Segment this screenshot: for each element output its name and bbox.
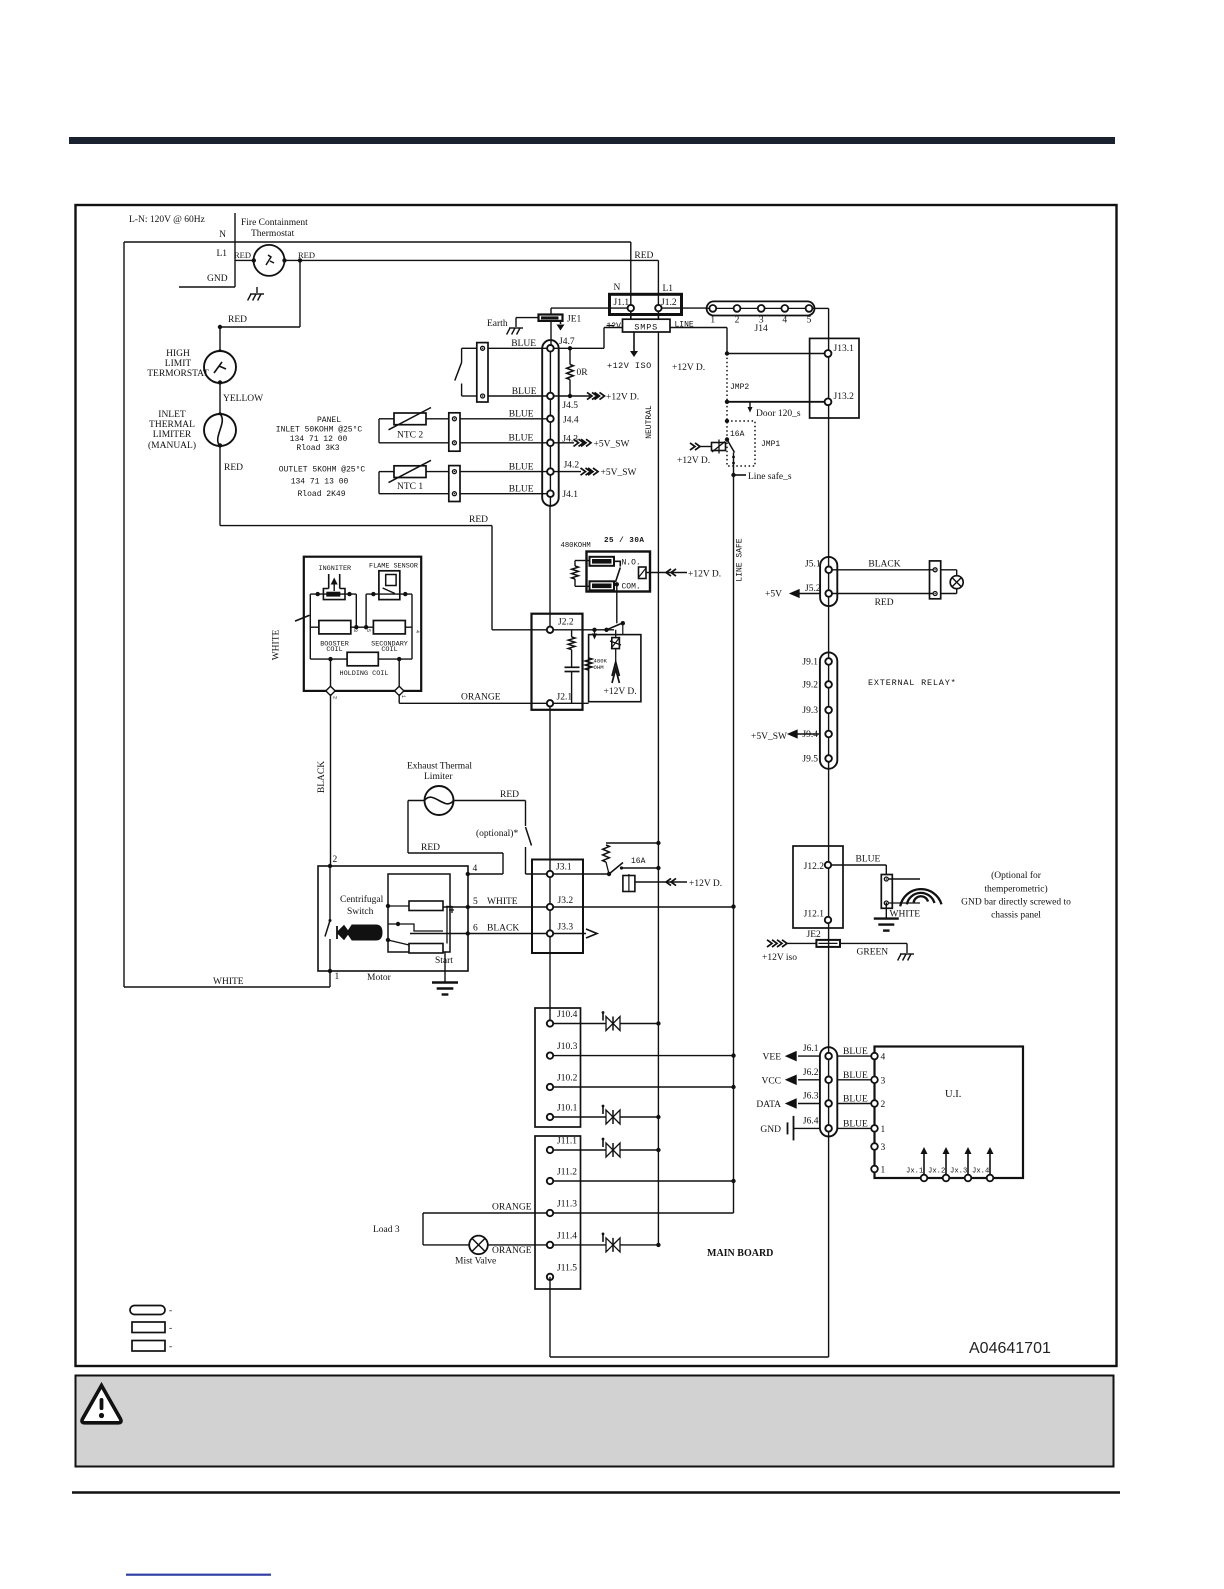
svg-text:L-N: 120V @ 60Hz: L-N: 120V @ 60Hz xyxy=(129,215,205,225)
svg-text:OHM: OHM xyxy=(594,664,604,671)
svg-text:RED: RED xyxy=(875,598,894,608)
svg-text:J9.5: J9.5 xyxy=(802,755,818,765)
svg-text:J6.1: J6.1 xyxy=(803,1044,819,1054)
svg-text:+5V_SW: +5V_SW xyxy=(751,732,787,742)
svg-text:BLUE: BLUE xyxy=(509,463,534,473)
svg-text:J9.4: J9.4 xyxy=(802,730,818,740)
svg-text:BLACK: BLACK xyxy=(487,924,519,934)
svg-text:J12.2: J12.2 xyxy=(804,862,825,872)
svg-text:Earth: Earth xyxy=(487,319,508,329)
svg-text:L1: L1 xyxy=(663,284,674,294)
svg-text:25 / 30A: 25 / 30A xyxy=(604,537,644,545)
svg-text:Load 3: Load 3 xyxy=(373,1225,400,1235)
svg-text:SMPS: SMPS xyxy=(634,322,658,332)
svg-text:FLAME SENSOR: FLAME SENSOR xyxy=(369,563,418,571)
svg-text:6: 6 xyxy=(473,924,478,934)
svg-text:JE1: JE1 xyxy=(567,315,582,325)
svg-text:VCC: VCC xyxy=(761,1076,781,1086)
svg-text:Motor: Motor xyxy=(367,973,392,983)
svg-text:J9.1: J9.1 xyxy=(802,658,818,668)
svg-text:-: - xyxy=(169,1342,172,1352)
svg-text:THERMAL: THERMAL xyxy=(149,420,195,430)
svg-text:1: 1 xyxy=(710,316,715,326)
svg-text:Limiter: Limiter xyxy=(424,772,453,782)
svg-text:DATA: DATA xyxy=(756,1100,781,1110)
svg-text:2: 2 xyxy=(881,1100,886,1110)
svg-text:VEE: VEE xyxy=(763,1053,782,1063)
svg-text:4: 4 xyxy=(414,630,420,633)
svg-text:BLUE: BLUE xyxy=(509,410,534,420)
svg-text:LIMIT: LIMIT xyxy=(165,359,192,369)
svg-text:Centrifugal: Centrifugal xyxy=(340,894,384,905)
svg-text:J4.7: J4.7 xyxy=(559,337,575,347)
svg-text:COM.: COM. xyxy=(622,583,641,592)
svg-text:J1.2: J1.2 xyxy=(661,298,677,308)
svg-text:TERMORSTAT: TERMORSTAT xyxy=(147,369,209,379)
svg-text:134 71 12 00: 134 71 12 00 xyxy=(290,435,348,444)
svg-text:N: N xyxy=(614,283,621,293)
svg-text:J4.4: J4.4 xyxy=(563,416,579,426)
svg-text:J11.1: J11.1 xyxy=(557,1137,577,1147)
svg-text:NTC 2: NTC 2 xyxy=(397,431,423,441)
svg-text:WHITE: WHITE xyxy=(272,630,282,661)
svg-text:RED: RED xyxy=(469,515,488,525)
svg-text:(optional)*: (optional)* xyxy=(476,828,518,839)
svg-text:BLACK: BLACK xyxy=(317,761,327,793)
svg-text:GND: GND xyxy=(760,1125,781,1135)
svg-text:J1.1: J1.1 xyxy=(614,298,630,308)
svg-text:GND bar directly screwed to: GND bar directly screwed to xyxy=(961,898,1071,908)
svg-text:J13.2: J13.2 xyxy=(834,392,855,402)
svg-text:WHITE: WHITE xyxy=(487,897,518,907)
svg-text:Exhaust Thermal: Exhaust Thermal xyxy=(407,762,472,772)
svg-text:GND: GND xyxy=(207,274,228,284)
svg-text:themperometric): themperometric) xyxy=(984,884,1047,895)
svg-text:4: 4 xyxy=(473,864,478,874)
svg-text:JE2: JE2 xyxy=(807,930,822,940)
svg-text:RED: RED xyxy=(421,843,440,853)
svg-text:J11.2: J11.2 xyxy=(557,1168,577,1178)
svg-text:J6.3: J6.3 xyxy=(803,1092,819,1102)
svg-text:1: 1 xyxy=(400,695,406,698)
svg-text:BLUE: BLUE xyxy=(508,434,533,444)
svg-text:480KOHM: 480KOHM xyxy=(561,542,591,550)
svg-text:Door 120_s: Door 120_s xyxy=(756,409,801,419)
svg-text:J2.1: J2.1 xyxy=(557,693,573,703)
svg-text:1: 1 xyxy=(881,1166,886,1176)
svg-text:134 71 13 00: 134 71 13 00 xyxy=(291,478,349,487)
svg-text:A04641701: A04641701 xyxy=(969,1340,1051,1357)
svg-text:5: 5 xyxy=(365,629,371,632)
svg-text:INLET 50KOHM @25°C: INLET 50KOHM @25°C xyxy=(276,426,363,435)
svg-text:J3.3: J3.3 xyxy=(558,923,574,933)
svg-text:J9.3: J9.3 xyxy=(802,706,818,716)
svg-text:J10.3: J10.3 xyxy=(557,1042,578,1052)
svg-text:4: 4 xyxy=(782,316,787,326)
svg-text:ORANGE: ORANGE xyxy=(492,1246,532,1256)
svg-text:J10.2: J10.2 xyxy=(557,1074,578,1084)
svg-text:16A: 16A xyxy=(730,430,745,439)
svg-text:J2.2: J2.2 xyxy=(558,618,574,628)
svg-text:5: 5 xyxy=(807,316,812,326)
svg-text:MAIN BOARD: MAIN BOARD xyxy=(707,1248,773,1259)
svg-text:U.I.: U.I. xyxy=(945,1089,961,1100)
svg-text:(MANUAL): (MANUAL) xyxy=(148,440,196,451)
svg-text:Jx.1: Jx.1 xyxy=(906,1168,923,1176)
svg-text:J13.1: J13.1 xyxy=(834,344,855,354)
svg-text:0R: 0R xyxy=(577,368,589,378)
svg-text:+5V: +5V xyxy=(765,590,782,600)
svg-text:J3.2: J3.2 xyxy=(558,896,574,906)
svg-text:BLUE: BLUE xyxy=(843,1047,868,1057)
svg-text:16A: 16A xyxy=(631,857,646,866)
svg-text:J4.2: J4.2 xyxy=(564,461,580,471)
svg-text:Jx.3: Jx.3 xyxy=(950,1168,967,1176)
svg-text:BLUE: BLUE xyxy=(843,1071,868,1081)
svg-text:EXTERNAL RELAY*: EXTERNAL RELAY* xyxy=(868,678,957,688)
svg-text:J9.2: J9.2 xyxy=(802,681,818,691)
svg-text:BLUE: BLUE xyxy=(843,1119,868,1129)
svg-text:L1: L1 xyxy=(216,249,227,259)
svg-text:INLET: INLET xyxy=(158,410,186,420)
svg-text:ORANGE: ORANGE xyxy=(492,1203,532,1213)
svg-text:JMP1: JMP1 xyxy=(761,440,780,449)
svg-text:BLUE: BLUE xyxy=(512,387,537,397)
svg-text:+12V D.: +12V D. xyxy=(677,456,710,466)
svg-text:COIL: COIL xyxy=(381,646,397,654)
svg-text:+12V iso: +12V iso xyxy=(762,953,797,963)
svg-text:RED: RED xyxy=(224,463,243,473)
svg-text:HIGH: HIGH xyxy=(166,349,190,359)
svg-text:INGNITER: INGNITER xyxy=(319,565,352,573)
svg-text:COIL: COIL xyxy=(326,646,342,654)
svg-text:RED: RED xyxy=(500,790,519,800)
svg-text:+12V ISO: +12V ISO xyxy=(607,361,652,371)
svg-text:OUTLET 5KOHM @25°C: OUTLET 5KOHM @25°C xyxy=(279,466,366,475)
svg-text:Fire Containment: Fire Containment xyxy=(241,218,308,228)
svg-text:WHITE: WHITE xyxy=(213,977,244,987)
svg-text:Rload 3K3: Rload 3K3 xyxy=(296,444,339,453)
svg-text:BLUE: BLUE xyxy=(511,339,536,349)
svg-text:(Optional for: (Optional for xyxy=(991,870,1042,881)
svg-text:GREEN: GREEN xyxy=(857,948,889,958)
svg-text:4: 4 xyxy=(881,1053,886,1063)
svg-text:J14: J14 xyxy=(755,324,768,334)
svg-text:1: 1 xyxy=(335,972,340,982)
svg-text:Switch: Switch xyxy=(347,907,374,917)
svg-text:+12V D.: +12V D. xyxy=(604,687,637,697)
svg-text:3: 3 xyxy=(881,1143,886,1153)
svg-text:RED: RED xyxy=(228,315,247,325)
svg-text:J6.2: J6.2 xyxy=(803,1068,819,1078)
svg-text:NEUTRAL: NEUTRAL xyxy=(645,405,654,439)
svg-text:chassis panel: chassis panel xyxy=(991,911,1041,921)
svg-text:RED: RED xyxy=(298,250,315,260)
svg-text:J6.4: J6.4 xyxy=(803,1116,819,1126)
svg-text:2: 2 xyxy=(332,696,338,699)
svg-text:BLUE: BLUE xyxy=(856,855,881,865)
svg-text:Line safe_s: Line safe_s xyxy=(748,471,792,482)
svg-text:+12V D.: +12V D. xyxy=(688,570,721,580)
svg-text:2: 2 xyxy=(735,316,740,326)
svg-text:NTC 1: NTC 1 xyxy=(397,482,423,492)
svg-text:Start: Start xyxy=(435,956,453,966)
svg-text:J5.1: J5.1 xyxy=(805,560,821,570)
svg-text:BLACK: BLACK xyxy=(868,560,900,570)
svg-text:LINE SAFE: LINE SAFE xyxy=(736,538,745,581)
svg-text:N: N xyxy=(219,230,226,240)
svg-text:2: 2 xyxy=(333,855,338,865)
svg-text:BLUE: BLUE xyxy=(509,485,534,495)
svg-text:Jx.2: Jx.2 xyxy=(928,1168,945,1176)
svg-text:+12V D.: +12V D. xyxy=(672,363,705,373)
svg-text:Thermostat: Thermostat xyxy=(251,229,295,239)
svg-text:YELLOW: YELLOW xyxy=(223,394,263,404)
svg-text:J5.2: J5.2 xyxy=(805,584,821,594)
svg-text:+5V_SW: +5V_SW xyxy=(601,468,637,478)
svg-text:J11.5: J11.5 xyxy=(557,1263,577,1273)
svg-text:RED: RED xyxy=(634,251,653,261)
svg-text:Rload 2K49: Rload 2K49 xyxy=(297,490,345,499)
svg-text:J10.1: J10.1 xyxy=(557,1104,578,1114)
svg-text:J11.3: J11.3 xyxy=(557,1200,577,1210)
svg-text:J12.1: J12.1 xyxy=(804,910,825,920)
svg-text:J4.1: J4.1 xyxy=(562,490,578,500)
svg-text:3: 3 xyxy=(352,629,358,632)
svg-text:BLUE: BLUE xyxy=(843,1095,868,1105)
svg-text:J11.4: J11.4 xyxy=(557,1231,577,1241)
svg-text:5: 5 xyxy=(473,897,478,907)
svg-text:HOLDING COIL: HOLDING COIL xyxy=(340,670,389,678)
svg-text:N.O.: N.O. xyxy=(622,559,641,568)
svg-text:LIMITER: LIMITER xyxy=(153,430,192,440)
svg-text:J4.5: J4.5 xyxy=(562,401,578,411)
svg-text:-: - xyxy=(169,1306,172,1316)
svg-text:+12V D.: +12V D. xyxy=(606,393,639,403)
svg-text:RED: RED xyxy=(234,250,251,260)
svg-text:+12V D.: +12V D. xyxy=(689,879,722,889)
svg-text:Jx.4: Jx.4 xyxy=(972,1168,989,1176)
svg-text:PANEL: PANEL xyxy=(317,416,341,425)
svg-text:3: 3 xyxy=(881,1076,886,1086)
svg-text:J3.1: J3.1 xyxy=(556,863,572,873)
svg-text:JMP2: JMP2 xyxy=(730,383,749,392)
svg-text:ORANGE: ORANGE xyxy=(461,693,501,703)
svg-text:J10.4: J10.4 xyxy=(557,1010,578,1020)
svg-text:+5V_SW: +5V_SW xyxy=(594,439,630,449)
svg-text:Mist Valve: Mist Valve xyxy=(455,1257,496,1267)
svg-text:-: - xyxy=(169,1324,172,1334)
svg-text:1: 1 xyxy=(881,1125,886,1135)
svg-text:12V: 12V xyxy=(607,322,622,331)
